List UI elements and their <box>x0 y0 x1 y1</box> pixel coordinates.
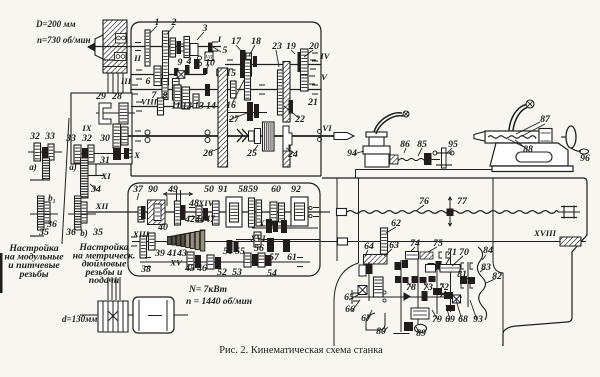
svg-text:IV: IV <box>319 51 330 61</box>
svg-text:88: 88 <box>523 144 533 155</box>
svg-text:a): a) <box>69 162 77 172</box>
svg-text:87: 87 <box>540 114 551 125</box>
svg-text:VIII: VIII <box>141 97 158 107</box>
svg-text:77: 77 <box>457 196 468 207</box>
svg-text:32: 32 <box>81 133 92 144</box>
svg-text:21: 21 <box>307 97 318 108</box>
svg-text:68: 68 <box>458 314 468 325</box>
svg-text:5: 5 <box>223 45 228 56</box>
svg-text:4: 4 <box>186 56 192 67</box>
svg-text:70: 70 <box>459 247 469 258</box>
svg-text:II: II <box>133 53 141 63</box>
svg-text:82: 82 <box>492 271 502 282</box>
svg-text:XVII: XVII <box>258 218 278 228</box>
svg-text:b₁: b₁ <box>48 193 56 203</box>
svg-text:XIV: XIV <box>197 198 214 208</box>
svg-text:60: 60 <box>271 184 281 195</box>
svg-text:Рис. 2. Кинематическая схема: Рис. 2. Кинематическая схема станка <box>219 345 383 356</box>
svg-text:93: 93 <box>473 314 483 325</box>
svg-text:28: 28 <box>111 91 122 102</box>
svg-text:55: 55 <box>235 246 245 257</box>
svg-text:резьбы: резьбы <box>18 269 48 280</box>
svg-text:95: 95 <box>448 139 458 150</box>
svg-text:XVIII: XVIII <box>533 228 557 238</box>
svg-text:81: 81 <box>457 269 467 280</box>
svg-text:12: 12 <box>182 101 192 112</box>
svg-text:35: 35 <box>92 227 103 238</box>
svg-text:49: 49 <box>167 184 178 195</box>
svg-text:63: 63 <box>389 240 399 251</box>
svg-text:48: 48 <box>188 198 199 209</box>
svg-text:78: 78 <box>406 282 416 293</box>
svg-text:n=730 об/мин: n=730 об/мин <box>37 35 91 45</box>
svg-text:56: 56 <box>254 243 264 254</box>
svg-text:n = 1440 об/мин: n = 1440 об/мин <box>186 296 252 307</box>
svg-text:15: 15 <box>226 68 236 79</box>
svg-text:54: 54 <box>267 268 277 279</box>
svg-text:IX: IX <box>81 123 92 133</box>
svg-text:44: 44 <box>194 214 205 225</box>
svg-text:23: 23 <box>271 41 282 52</box>
svg-text:N= 7кВт: N= 7кВт <box>188 285 227 295</box>
svg-text:38: 38 <box>140 264 151 275</box>
svg-text:53: 53 <box>232 267 242 278</box>
svg-text:35: 35 <box>38 227 49 238</box>
svg-text:96: 96 <box>580 153 590 164</box>
svg-text:26: 26 <box>202 148 213 159</box>
svg-text:59: 59 <box>248 184 258 195</box>
svg-text:XII: XII <box>95 201 109 211</box>
svg-text:47: 47 <box>204 214 216 225</box>
svg-text:45: 45 <box>184 263 195 274</box>
svg-text:51: 51 <box>223 246 233 257</box>
svg-text:VI: VI <box>322 123 332 133</box>
svg-text:XIII: XIII <box>132 229 150 239</box>
svg-text:40: 40 <box>157 222 168 233</box>
svg-text:50: 50 <box>204 184 214 195</box>
svg-text:16: 16 <box>226 100 236 111</box>
svg-text:46: 46 <box>196 263 207 274</box>
svg-text:подачи: подачи <box>89 275 120 286</box>
svg-text:14: 14 <box>206 101 216 112</box>
svg-text:61: 61 <box>287 252 297 263</box>
svg-text:86: 86 <box>400 139 410 150</box>
svg-text:83: 83 <box>481 262 491 273</box>
svg-text:57: 57 <box>269 252 280 263</box>
svg-text:64: 64 <box>364 241 374 252</box>
svg-text:XVI: XVI <box>249 233 266 243</box>
svg-text:58: 58 <box>238 184 248 195</box>
svg-text:3: 3 <box>202 23 208 34</box>
svg-text:13: 13 <box>194 101 204 112</box>
svg-text:33: 33 <box>65 133 76 144</box>
svg-text:33: 33 <box>44 131 55 142</box>
svg-text:52: 52 <box>217 267 227 278</box>
svg-text:24: 24 <box>287 149 298 160</box>
svg-text:84: 84 <box>483 245 493 256</box>
svg-text:18: 18 <box>251 36 261 47</box>
svg-text:91: 91 <box>218 184 228 195</box>
svg-text:8: 8 <box>163 91 168 102</box>
svg-text:XV: XV <box>169 258 183 268</box>
svg-text:32: 32 <box>29 131 40 142</box>
svg-text:75: 75 <box>433 238 443 249</box>
svg-text:71: 71 <box>447 247 457 258</box>
svg-text:25: 25 <box>246 148 257 159</box>
svg-text:80: 80 <box>376 326 386 337</box>
svg-text:30: 30 <box>99 133 110 144</box>
svg-text:20: 20 <box>308 41 319 52</box>
svg-text:37: 37 <box>132 184 144 195</box>
svg-text:90: 90 <box>148 184 158 195</box>
svg-text:39: 39 <box>154 248 165 259</box>
svg-text:III: III <box>120 76 132 86</box>
svg-text:D=200 мм: D=200 мм <box>35 19 76 29</box>
svg-text:b): b) <box>80 228 88 238</box>
svg-text:10: 10 <box>205 58 215 69</box>
svg-text:XI: XI <box>100 171 111 181</box>
svg-text:a): a) <box>29 162 37 172</box>
svg-text:79: 79 <box>432 314 442 325</box>
svg-text:I: I <box>217 34 222 44</box>
svg-text:42: 42 <box>184 214 195 225</box>
svg-text:d=130мм: d=130мм <box>62 314 97 324</box>
svg-text:29: 29 <box>95 91 106 102</box>
svg-text:X: X <box>133 150 141 160</box>
svg-text:6: 6 <box>146 76 151 87</box>
svg-text:11: 11 <box>171 101 180 112</box>
svg-text:31: 31 <box>99 155 110 166</box>
svg-text:9: 9 <box>178 57 183 68</box>
svg-text:92: 92 <box>291 184 301 195</box>
svg-text:36: 36 <box>65 227 76 238</box>
